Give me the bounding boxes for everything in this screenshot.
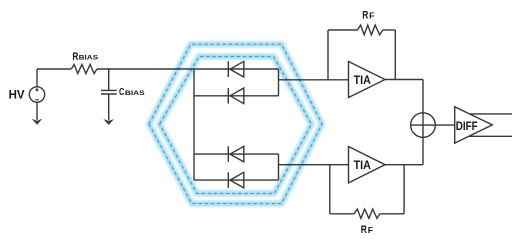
diode block bottom-right rail <box>278 154 280 180</box>
hexagon inner dashed boundary glow <box>160 57 312 194</box>
wire TIA2 feedback right vertical <box>403 165 405 214</box>
svg-text:R: R <box>361 224 367 236</box>
svg-text:TIA: TIA <box>354 73 371 87</box>
svg-text:F: F <box>368 225 373 235</box>
diode block top-right rail <box>278 69 280 96</box>
ground arrow at CBIAS <box>103 119 114 125</box>
V1 plus sign <box>35 88 38 91</box>
resistor RBIAS <box>71 65 97 74</box>
photodiode D3 <box>228 146 244 162</box>
svg-text:DIFF: DIFF <box>456 120 478 133</box>
photodiode D4 <box>228 172 244 188</box>
wire TIA1 output <box>385 79 423 81</box>
svg-text:BIAS: BIAS <box>125 90 145 97</box>
wire TIA1 feedback top rail right <box>383 29 396 31</box>
wire bottom pair second row <box>194 179 279 181</box>
wire TIA outputs to summing node vertical <box>422 80 424 165</box>
svg-text:F: F <box>369 10 374 20</box>
wire TIA2 output <box>385 164 423 166</box>
capacitor CBIAS lead bottom <box>108 94 110 120</box>
svg-text:R: R <box>362 9 368 21</box>
wire DIFF output minus <box>469 135 512 137</box>
photodiode D2 <box>228 88 244 104</box>
voltage source V1 (HV) <box>29 87 44 102</box>
wire top diode pair to TIA1 input <box>279 79 349 81</box>
V1 minus sign <box>35 99 39 101</box>
summing node S1 <box>411 113 436 138</box>
wire RBIAS to diode block left rail <box>97 68 279 70</box>
wire bottom pair first row <box>194 153 279 155</box>
svg-text:TIA: TIA <box>354 158 371 172</box>
op-amp TIA2 <box>349 147 386 183</box>
wire DIFF output plus <box>470 113 512 115</box>
wire HV node to RBIAS <box>37 68 71 70</box>
wire bottom diode pair to TIA2 input <box>279 164 349 166</box>
wire TIA1 feedback left vertical <box>327 30 329 80</box>
wire TIA2 feedback left vertical <box>329 165 331 214</box>
wire V1 top to main rail <box>36 69 38 87</box>
op-amp TIA1 <box>349 62 386 98</box>
wire TIA2 feedback bottom rail right <box>380 213 404 215</box>
svg-text:BIAS: BIAS <box>79 55 99 62</box>
wire top pair second row <box>194 95 279 97</box>
wire V1 bottom to ground <box>36 102 38 120</box>
wire TIA2 feedback bottom rail left <box>330 213 354 215</box>
wire summing node to DIFF input <box>411 124 455 126</box>
hexagon outer dashed boundary <box>149 44 322 203</box>
wire TIA1 feedback top rail left <box>328 29 357 31</box>
hexagon outer dashed boundary glow <box>149 44 322 203</box>
resistor RF (top) <box>358 25 383 35</box>
op-amp DIFF U1 <box>455 107 493 143</box>
wire TIA1 feedback right vertical <box>394 30 396 80</box>
capacitor CBIAS plates <box>101 90 117 94</box>
hexagon inner dashed boundary <box>160 57 312 194</box>
photodiode D1 <box>228 61 244 77</box>
resistor RF (bottom) <box>354 209 380 218</box>
svg-text:C: C <box>119 87 125 98</box>
diode block left rail <box>193 69 195 180</box>
ground arrow at V1 <box>32 119 43 125</box>
svg-text:HV: HV <box>9 87 26 101</box>
capacitor CBIAS lead top <box>108 69 110 90</box>
